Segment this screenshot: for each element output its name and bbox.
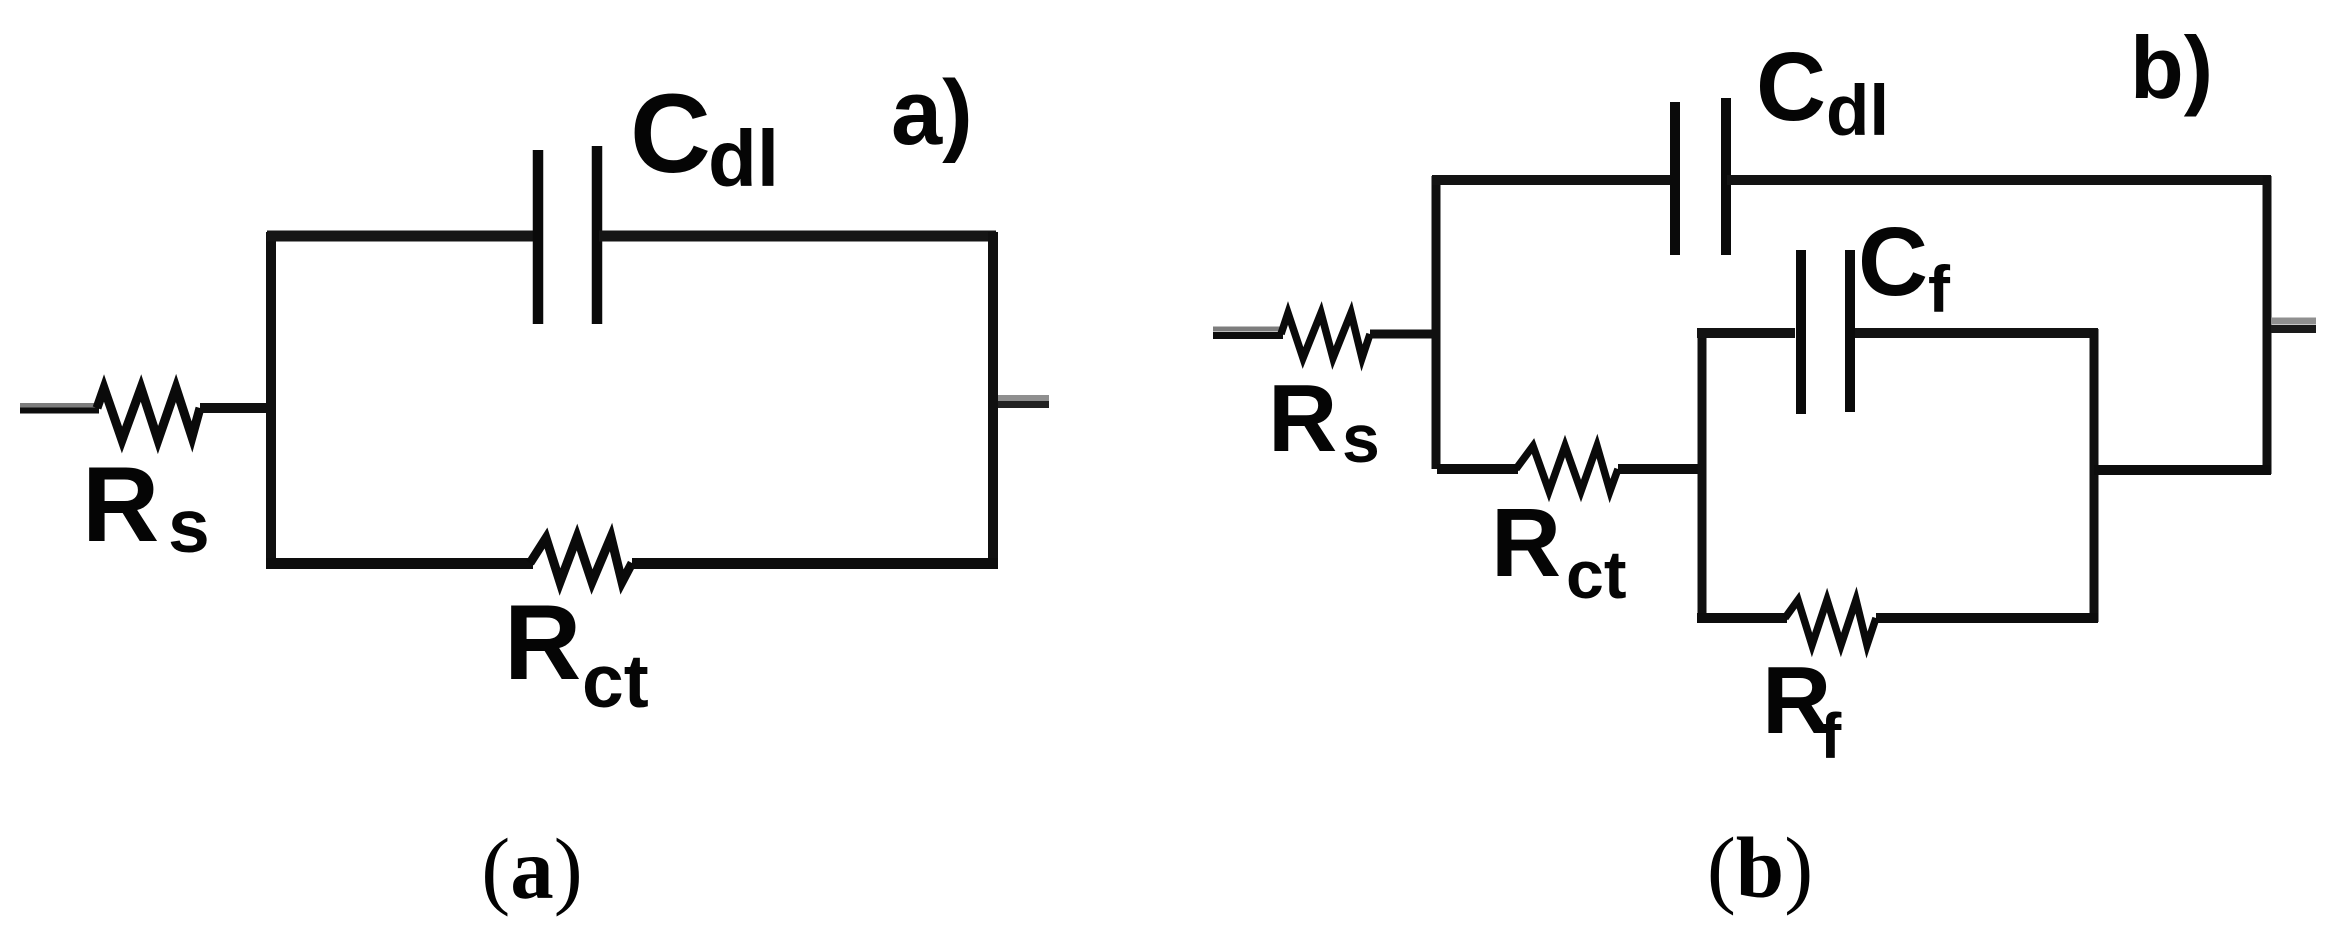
wire connector inner to outer box b	[2094, 465, 2271, 475]
inner box b: left vertical wire	[1698, 329, 1707, 622]
resistor R_f zigzag	[1785, 600, 1876, 645]
svg-text:R: R	[1491, 488, 1561, 597]
capacitor C_f right plate	[1845, 250, 1855, 412]
outer box b: left vertical wire	[1432, 176, 1441, 469]
svg-text:s: s	[168, 484, 210, 568]
wire inner top-right segment b	[1855, 328, 2098, 338]
wire output stub a	[998, 395, 1049, 401]
capacitor C_dl (a) right plate	[592, 146, 603, 324]
resistor Rs (b) zigzag	[1281, 313, 1370, 358]
svg-text:C: C	[1858, 207, 1928, 316]
svg-text:ct: ct	[582, 639, 649, 723]
wire top-right segment a	[599, 231, 996, 242]
capacitor C_dl (b) left plate	[1670, 102, 1680, 255]
wire input a	[20, 406, 99, 411]
svg-text:ct: ct	[1566, 537, 1626, 613]
svg-text:R: R	[1268, 365, 1337, 472]
wire inner top-left segment b	[1697, 328, 1795, 338]
wire outer top-right segment b	[1727, 175, 2271, 185]
wire Rs to node	[200, 403, 272, 413]
svg-text:f: f	[1928, 252, 1951, 326]
svg-text:(b): (b)	[1707, 819, 1813, 916]
wire output stub b	[2271, 318, 2316, 325]
resistor R_ct (b) zigzag	[1516, 446, 1618, 491]
wire input b	[1213, 327, 1283, 332]
wire Rs to node b	[1370, 330, 1438, 339]
capacitor C_dl (b) right plate	[1721, 98, 1731, 255]
svg-text:b): b)	[2130, 18, 2213, 117]
wire top-left segment a	[267, 231, 536, 242]
svg-text:C: C	[630, 71, 711, 196]
wire bottom-left segment a	[266, 558, 533, 569]
svg-text:R: R	[504, 582, 581, 702]
node/box a: left vertical wire	[266, 232, 276, 566]
wire R_ct branch b	[1437, 464, 1518, 474]
svg-text:f: f	[1820, 700, 1842, 772]
resistor R_ct (a) zigzag	[530, 537, 632, 582]
wire inner bottom-right segment b	[1876, 613, 2098, 623]
outer box b: right vertical wire	[2263, 176, 2272, 474]
svg-text:s: s	[1342, 401, 1380, 477]
wire R_ct to inner box b	[1618, 464, 1701, 474]
wire inner bottom-left segment b	[1697, 613, 1787, 623]
wire outer top-left segment b	[1432, 175, 1671, 185]
capacitor C_dl (a) left plate	[533, 150, 544, 324]
inner box b: right vertical wire	[2090, 329, 2099, 622]
wire bottom-right segment a	[632, 558, 998, 569]
resistor Rs (a) zigzag	[97, 388, 200, 440]
svg-text:dl: dl	[708, 114, 779, 203]
box a: right vertical wire	[988, 232, 998, 567]
capacitor C_f left plate	[1796, 250, 1806, 414]
svg-text:C: C	[1756, 32, 1826, 141]
svg-text:(a): (a)	[481, 820, 582, 917]
svg-text:dl: dl	[1826, 72, 1889, 151]
svg-text:R: R	[82, 444, 159, 564]
svg-text:a): a)	[891, 62, 973, 164]
